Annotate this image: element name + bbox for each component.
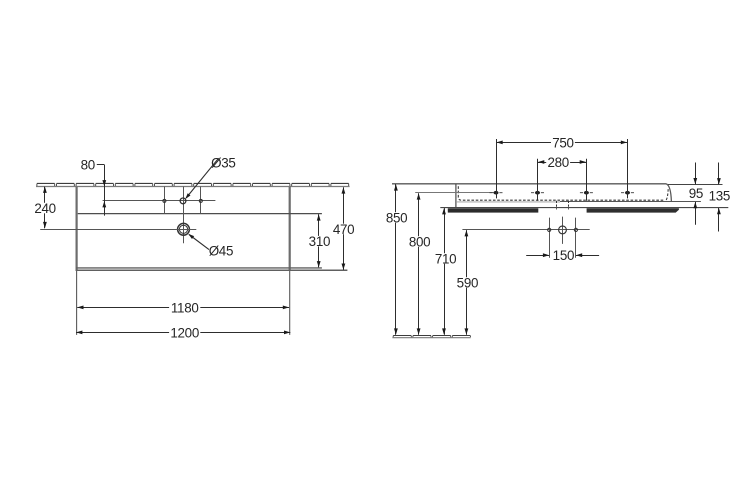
dimension 80 <box>81 158 107 216</box>
dimension 470 <box>332 187 356 269</box>
label D45 text <box>209 243 233 258</box>
side view underside line <box>456 201 701 203</box>
side view front edge curve <box>666 184 671 202</box>
floor line band <box>392 336 470 338</box>
svg-text:280: 280 <box>547 155 568 170</box>
extension lines for 750 <box>497 139 628 198</box>
bottom optional hole right <box>574 218 577 258</box>
label D45 leader <box>188 234 209 250</box>
deck hole 2 <box>531 191 544 195</box>
dimension 150 <box>526 248 599 263</box>
bottom tap hole vertical centerline <box>562 217 564 244</box>
dimension 135 <box>709 163 730 232</box>
svg-text:150: 150 <box>553 248 574 263</box>
overflow hole D45 outer circle <box>178 223 190 235</box>
tap hole side extension left <box>164 187 166 214</box>
svg-text:470: 470 <box>333 222 354 237</box>
deck hole 3 <box>580 191 593 195</box>
extension line right <box>289 271 291 335</box>
extension lines for 280 <box>538 159 587 201</box>
dimension 95 <box>689 163 703 225</box>
hidden drain outline dashed <box>557 201 569 210</box>
tap hole centerline side view <box>415 192 493 194</box>
svg-text:750: 750 <box>552 135 573 150</box>
svg-text:310: 310 <box>309 234 330 249</box>
svg-text:240: 240 <box>34 201 55 216</box>
svg-text:1200: 1200 <box>170 326 199 341</box>
svg-text:Ø35: Ø35 <box>211 155 235 170</box>
mounting rail left bar <box>448 208 539 212</box>
svg-text:80: 80 <box>81 158 95 173</box>
top extension line right <box>668 184 723 186</box>
basin left edge <box>75 187 77 272</box>
svg-text:850: 850 <box>386 210 407 225</box>
dimension 800 <box>408 193 432 334</box>
side view left edge <box>455 184 457 207</box>
svg-text:Ø45: Ø45 <box>209 243 233 258</box>
svg-text:710: 710 <box>435 251 456 266</box>
dimension 750 <box>496 135 628 150</box>
dimension 240 <box>33 187 57 229</box>
hidden bowl outline dashed <box>458 186 668 200</box>
optional tap hole left <box>163 199 166 202</box>
tap hole vertical centerline <box>183 187 185 244</box>
basin right edge <box>289 187 291 272</box>
basin bottom lower line <box>76 269 347 271</box>
bottom tap hole horizontal centerline <box>462 229 589 231</box>
mounting rail top line <box>440 207 728 209</box>
dimension 1180 <box>77 301 289 316</box>
svg-text:95: 95 <box>689 186 703 201</box>
mounting rail right bar <box>587 208 679 212</box>
dimension 590 <box>455 230 479 335</box>
bottom optional hole left <box>548 218 551 258</box>
dimension 1200 <box>76 326 290 341</box>
extension line left <box>76 271 78 335</box>
basin bottom upper line <box>76 267 322 269</box>
dimension 310 <box>307 214 331 267</box>
optional tap hole right <box>199 199 202 202</box>
deck hole 4 <box>621 191 634 195</box>
tap hole side extension right <box>200 187 202 214</box>
svg-text:590: 590 <box>457 275 478 290</box>
overflow hole horizontal centerline / 240 extension <box>40 229 196 231</box>
deck hole 1 <box>490 191 503 195</box>
dimension 280 <box>538 155 586 170</box>
basin inner rim line <box>78 213 322 215</box>
dimension 710 <box>434 208 458 335</box>
svg-text:1180: 1180 <box>171 301 199 316</box>
svg-text:800: 800 <box>409 234 430 249</box>
svg-text:135: 135 <box>709 189 730 204</box>
label D35 text <box>211 155 235 170</box>
overflow hole D45 inner circle <box>179 225 187 233</box>
bottom tap hole circle <box>559 226 567 234</box>
tap hole centerline horizontal <box>103 200 216 202</box>
dimension 850 <box>385 184 409 334</box>
label D35 leader <box>185 158 218 199</box>
tap hole circle D35 <box>180 198 186 204</box>
washbasin top rim band (front view) <box>36 183 350 186</box>
side view top surface line <box>392 183 666 185</box>
